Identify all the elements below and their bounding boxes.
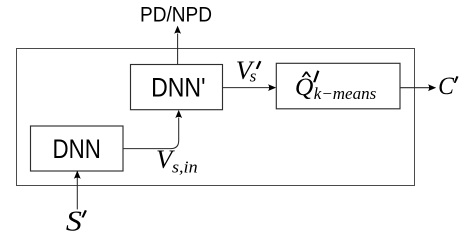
svg-text:C: C [438,72,454,100]
wire DNN' to Q block [223,87,270,89]
svg-text:DNN': DNN' [151,72,205,102]
wire DNN to DNN' with rounded corner [123,118,179,149]
prime of V [256,61,262,69]
prime of C [454,76,459,83]
outer system boundary box [17,49,415,186]
arrowhead to C' [428,84,436,91]
block DNN' [131,65,223,110]
arrowhead to PD/NPD [174,26,181,34]
arrowhead into DNN bottom [74,171,81,179]
svg-text:PD/NPD: PD/NPD [140,4,212,27]
block Q-hat-prime k-means [276,63,400,109]
svg-text:DNN: DNN [53,134,101,164]
arrowhead into Q block [268,84,276,91]
wire S' input arrow into DNN [76,172,78,210]
svg-text:k−means: k−means [314,84,376,103]
svg-text:s,in: s,in [172,158,198,177]
svg-text:s: s [250,67,257,86]
svg-text:Q: Q [295,72,314,101]
label hat accent over Q [302,72,312,78]
wire DNN' up to PD/NPD output [177,34,179,65]
label prime of Q [313,70,319,82]
svg-text:S: S [66,206,82,237]
prime of S [82,210,87,218]
wire Q block to C' output [400,87,430,89]
block DNN [31,126,124,171]
arrowhead into DNN' bottom [175,110,182,118]
